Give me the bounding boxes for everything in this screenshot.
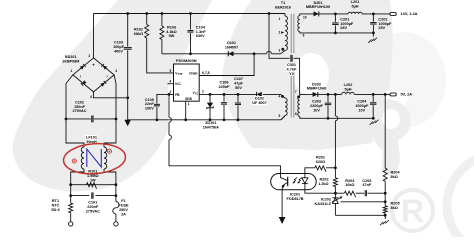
svg-text:1N4007: 1N4007 [225,45,238,49]
svg-text:RT1: RT1 [52,199,59,203]
svg-text:2: 2 [88,54,90,58]
svg-text:6: 6 [303,34,305,38]
svg-text:1: 1 [70,69,72,73]
svg-text:6: 6 [295,112,297,116]
svg-text:BD101: BD101 [65,55,76,59]
svg-text:Y2: Y2 [289,72,294,76]
svg-text:5V, 2A: 5V, 2A [401,92,413,97]
svg-text:1.2kΩ: 1.2kΩ [318,182,328,186]
svg-text:1: 1 [279,17,281,21]
svg-text:5µH: 5µH [344,88,351,92]
svg-text:+: + [92,63,95,68]
svg-text:4.3kΩ: 4.3kΩ [166,30,176,34]
svg-text:C203: C203 [312,100,321,104]
svg-text:620Ω: 620Ω [316,160,325,164]
svg-text:10kΩ: 10kΩ [345,183,354,187]
svg-text:IC201: IC201 [290,192,300,196]
svg-text:5W: 5W [169,34,175,38]
svg-text:2A: 2A [121,212,126,216]
svg-text:4: 4 [279,95,281,99]
svg-text:CC: CC [195,93,199,95]
svg-text:6,7,8: 6,7,8 [202,71,210,75]
svg-text:L202: L202 [344,83,353,87]
svg-text:1000µF: 1000µF [378,22,392,26]
svg-text:2: 2 [279,31,281,35]
svg-text:275VAC: 275VAC [86,209,100,213]
svg-text:N.C.: N.C. [175,82,181,86]
svg-text:47nF: 47nF [362,183,372,187]
svg-text:EER2016: EER2016 [275,6,291,10]
svg-text:1W: 1W [90,178,96,182]
svg-text:3: 3 [115,69,117,73]
svg-text:14V, 1.2A: 14V, 1.2A [401,11,418,16]
svg-text:C204: C204 [357,100,367,104]
svg-text:R201: R201 [316,156,325,160]
svg-text:C106: C106 [219,80,228,84]
svg-text:ZD101: ZD101 [205,121,216,125]
svg-text:4.7nF: 4.7nF [287,67,298,71]
svg-text:630V: 630V [196,34,205,38]
svg-text:C202: C202 [378,17,387,21]
svg-text:25V: 25V [340,26,347,30]
svg-text:10: 10 [303,16,307,20]
svg-text:1.9MΩ: 1.9MΩ [87,174,99,178]
svg-text:C105: C105 [145,98,154,102]
svg-text:68kΩ: 68kΩ [134,32,143,36]
svg-text:250V: 250V [119,208,128,212]
svg-text:8kΩ: 8kΩ [391,206,398,210]
svg-text:50V: 50V [235,86,242,90]
svg-text:KA431LZ: KA431LZ [315,202,332,206]
svg-text:1N4756A: 1N4756A [203,125,219,129]
svg-text:R203: R203 [345,179,354,183]
svg-text:Drain: Drain [189,71,197,75]
svg-text:C301: C301 [287,63,296,67]
svg-text:MBRF10H100: MBRF10H100 [306,5,330,9]
svg-text:R202: R202 [320,178,329,182]
svg-text:4: 4 [170,80,172,84]
svg-text:2KBP08M: 2KBP08M [62,60,79,64]
svg-text:1000µF: 1000µF [355,104,369,108]
svg-text:47µF: 47µF [234,82,243,86]
svg-text:FSGM300N: FSGM300N [176,58,197,63]
svg-text:R: R [401,193,424,229]
svg-text:C103: C103 [114,41,123,45]
svg-text:275VAC: 275VAC [72,109,86,113]
svg-text:C107: C107 [234,77,243,81]
svg-text:D102: D102 [255,97,264,101]
svg-text:F1: F1 [121,199,125,203]
svg-text:R103: R103 [167,25,176,29]
svg-text:4: 4 [90,95,92,99]
svg-text:25V: 25V [378,26,385,30]
svg-text:NTC: NTC [52,204,60,208]
svg-text:R205: R205 [391,201,400,205]
svg-text:7: 7 [295,90,297,94]
svg-text:100µF: 100µF [113,45,125,49]
svg-text:C104: C104 [196,25,206,29]
svg-text:MBRF1060: MBRF1060 [307,87,326,91]
svg-text:8kΩ: 8kΩ [391,175,398,179]
svg-text:2: 2 [202,89,204,93]
svg-text:5: 5 [279,114,281,118]
svg-text:FUSE: FUSE [118,204,129,208]
svg-text:FOD817B: FOD817B [286,197,303,201]
svg-text:): ) [107,74,108,78]
svg-text:220nF: 220nF [87,205,99,209]
svg-text:400V: 400V [114,49,123,53]
svg-text:C102: C102 [75,100,84,104]
svg-text:R204: R204 [391,170,401,174]
svg-text:C205: C205 [362,179,371,183]
svg-text:C201: C201 [340,17,349,21]
svg-text:5D-9: 5D-9 [51,208,59,212]
svg-text:UF 4007: UF 4007 [252,101,267,105]
svg-text:1: 1 [188,102,190,106]
svg-text:2200µF: 2200µF [310,104,324,108]
svg-text:1000µF: 1000µF [340,22,354,26]
svg-text:L201: L201 [351,0,360,4]
svg-text:150nF: 150nF [74,105,86,109]
svg-text:(: ( [80,74,81,78]
svg-text:1.3nF: 1.3nF [196,30,207,34]
svg-text:C101: C101 [88,201,97,205]
svg-text:10V: 10V [358,108,365,112]
svg-text:22nF: 22nF [145,102,155,106]
svg-text:IC202: IC202 [321,197,331,201]
svg-text:5µH: 5µH [351,4,358,8]
svg-text:220nF: 220nF [219,85,231,89]
svg-text:STR: STR [178,74,183,76]
svg-text:FB: FB [175,93,180,97]
svg-text:D101: D101 [227,41,236,45]
svg-text:10V: 10V [313,108,320,112]
svg-text:R102: R102 [134,28,143,32]
svg-text:100V: 100V [145,107,154,111]
svg-text:3: 3 [279,48,281,52]
svg-text:LF101: LF101 [86,136,97,140]
svg-text:T1: T1 [281,1,285,5]
svg-text:GND: GND [185,97,193,101]
svg-text:5: 5 [170,69,172,73]
